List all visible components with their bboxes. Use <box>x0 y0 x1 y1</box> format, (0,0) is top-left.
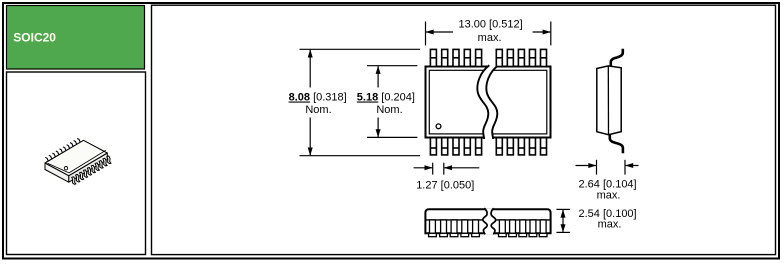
top view lower pin 4 <box>464 138 470 155</box>
side view pin 1 <box>429 220 437 237</box>
top view lower pin 3 <box>453 138 459 155</box>
3D package chamfer line <box>48 150 106 173</box>
side view pin 4 <box>461 220 469 237</box>
3D pin back tip 5 <box>60 149 63 153</box>
green header box SOIC20 <box>7 6 145 70</box>
side view break curve right <box>491 208 496 234</box>
top view body inner outline <box>429 70 547 134</box>
dimension 1.27 extension lines <box>433 163 444 175</box>
top view lower pin 7 <box>507 138 513 155</box>
package thumbnail box <box>7 72 146 255</box>
3D pin back tip 4 <box>56 151 59 155</box>
3D pin front 1 <box>72 177 76 185</box>
3D pin front 8 <box>99 161 103 169</box>
top view upper pin 5 <box>476 49 482 66</box>
svg-text:max.: max. <box>598 219 622 231</box>
dimension 8.08 extension lines <box>300 49 421 155</box>
svg-text:max.: max. <box>597 189 621 201</box>
side view break gap <box>483 208 496 234</box>
top view upper pin 1 <box>430 49 436 66</box>
top view break gap <box>477 65 498 139</box>
end view upper lead <box>611 49 623 66</box>
3D pin front 6 <box>91 165 95 173</box>
3D pin back tip 3 <box>52 153 55 157</box>
end view lower lead <box>610 134 623 153</box>
dimension 13.00 extension lines <box>426 22 551 46</box>
top view body outline <box>426 67 551 138</box>
3D pin front 7 <box>95 163 99 171</box>
dimension 2.64 extension lines <box>597 160 626 175</box>
top view lower pin 9 <box>529 138 535 155</box>
3D pin front 3 <box>80 172 84 180</box>
end view body <box>597 66 621 135</box>
3D pin front 9 <box>103 158 107 166</box>
dimension 2.54 extension lines <box>556 209 570 232</box>
dimension 2.64 arrow lines <box>576 165 639 167</box>
top view lower pin 1 <box>430 138 436 155</box>
top view break curve left <box>477 65 489 139</box>
3D pin back tip 6 <box>63 147 66 151</box>
3D pin front 10 <box>107 156 111 164</box>
top view upper pin 10 <box>541 49 547 66</box>
top view lower pin 2 <box>442 138 448 155</box>
top view upper pin 9 <box>529 49 535 66</box>
3D pin-1 dot <box>64 167 67 170</box>
side view lead-line <box>426 219 550 221</box>
dimension 5.18 extension lines <box>367 66 417 138</box>
dimension 5.18 arrow lines <box>377 66 379 137</box>
side view pin 3 <box>450 220 458 237</box>
3D pin back tip 10 <box>77 138 80 142</box>
3D pin back tip 8 <box>70 143 73 147</box>
dimension 13.00 arrows <box>426 31 550 33</box>
top view upper pin 2 <box>442 49 448 66</box>
svg-text:13.00 [0.512]: 13.00 [0.512] <box>458 19 522 31</box>
3D pin back tip 9 <box>74 141 77 145</box>
svg-text:Nom.: Nom. <box>376 104 402 116</box>
svg-text:1.27 [0.050]: 1.27 [0.050] <box>416 179 474 191</box>
svg-text:SOIC20: SOIC20 <box>13 30 56 44</box>
main drawing panel frame <box>152 5 776 254</box>
3D pin back tip 2 <box>49 155 52 159</box>
3D pin back tip 7 <box>67 145 70 149</box>
top view upper pin 3 <box>453 49 459 66</box>
end view mold line <box>607 66 609 135</box>
side view pin 8 <box>519 220 527 237</box>
3D package body side faces <box>45 163 69 182</box>
side view pin 10 <box>539 220 547 237</box>
top view upper pin 6 <box>496 49 502 66</box>
top view break curve right <box>486 65 498 139</box>
3D pin front 2 <box>76 174 80 182</box>
dimension 2.54 arrow line <box>562 210 564 232</box>
side view pin 2 <box>440 220 448 237</box>
side view pin 7 <box>509 220 517 237</box>
side view pin 9 <box>529 220 537 237</box>
top view upper pin 4 <box>464 49 470 66</box>
svg-text:Nom.: Nom. <box>305 104 331 116</box>
top view lower pin 6 <box>496 138 502 155</box>
svg-text:8.08 [0.318]: 8.08 [0.318] <box>289 92 347 104</box>
side view body outline <box>425 209 550 233</box>
top view upper pin 7 <box>507 49 513 66</box>
3D pin front 5 <box>87 167 91 175</box>
dimension 8.08 arrow lines <box>309 50 311 155</box>
top view lower pin 8 <box>518 138 524 155</box>
svg-text:5.18 [0.204]: 5.18 [0.204] <box>357 92 415 104</box>
side view pin 5 <box>472 220 480 237</box>
3D package top face <box>45 140 107 175</box>
3D pin back tip 1 <box>45 157 48 161</box>
side view break curve left <box>483 208 487 234</box>
svg-text:max.: max. <box>478 32 502 44</box>
top view pin-1 indicator circle <box>436 124 441 129</box>
top view lower pin 5 <box>476 138 482 155</box>
side view pin 6 <box>499 220 507 237</box>
3D pin front 4 <box>83 170 87 178</box>
top view upper pin 8 <box>518 49 524 66</box>
top view lower pin 10 <box>541 138 547 155</box>
dimension 1.27 arrow lines <box>414 167 480 169</box>
